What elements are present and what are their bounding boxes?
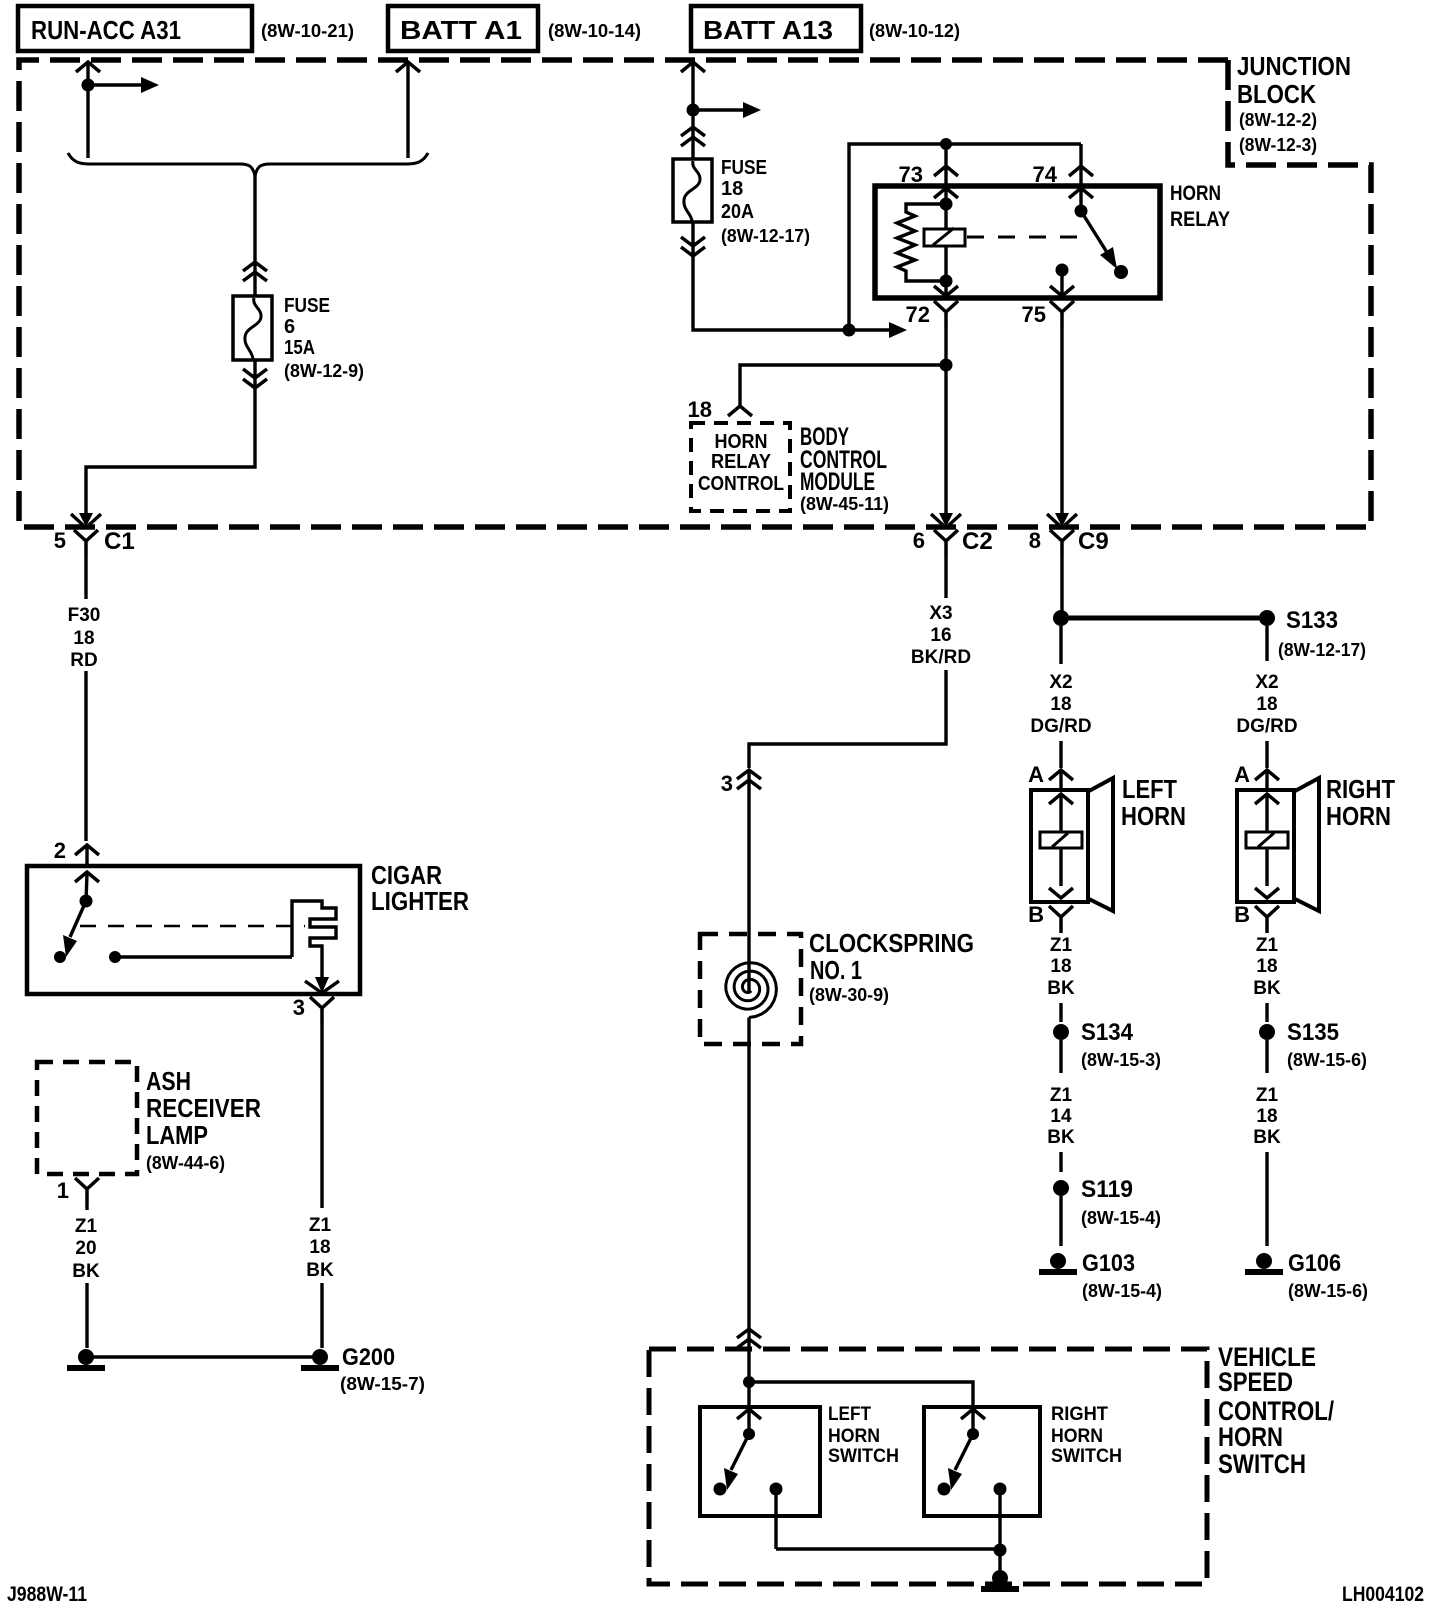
vehicle speed control horn switch dashed box [649, 1349, 1207, 1584]
svg-text:FUSE: FUSE [721, 157, 767, 179]
node on pin 72 wire to BCM [940, 359, 953, 372]
branch arrow right [849, 322, 907, 338]
svg-text:18: 18 [688, 397, 712, 422]
svg-text:A: A [1028, 762, 1044, 787]
relay coil [924, 204, 965, 281]
svg-text:16: 16 [930, 625, 951, 646]
cigar lighter switch pivot node [80, 895, 93, 908]
clockspring no.1 dashed box [700, 934, 801, 1044]
relay switch pivot node [1075, 205, 1088, 218]
BCM horn relay control dashed box [691, 423, 790, 511]
svg-text:BK: BK [306, 1260, 334, 1281]
svg-text:BK: BK [1047, 1127, 1075, 1148]
svg-text:CONTROL: CONTROL [698, 473, 784, 495]
connector C9 pin 8 [1029, 528, 1109, 557]
wire right switch output [998, 1489, 1001, 1550]
svg-text:(8W-10-14): (8W-10-14) [548, 21, 641, 41]
feed box BATT A1 [388, 6, 538, 51]
left horn connector pin B [1028, 902, 1073, 933]
svg-text:RELAY: RELAY [711, 451, 772, 473]
right horn connector pin A [1234, 762, 1279, 790]
left horn label [1121, 774, 1186, 831]
svg-text:RUN-ACC A31: RUN-ACC A31 [31, 15, 181, 45]
body control module label [800, 423, 889, 514]
left switch contact node left [714, 1483, 727, 1496]
cigar lighter box [27, 866, 360, 994]
svg-text:DG/RD: DG/RD [1030, 716, 1091, 737]
svg-text:HORN: HORN [828, 1426, 880, 1447]
fuse 6 label [284, 295, 364, 381]
ground G103 [1039, 1250, 1162, 1301]
svg-text:20: 20 [75, 1238, 96, 1259]
svg-text:75: 75 [1022, 302, 1046, 327]
svg-text:(8W-10-12): (8W-10-12) [869, 21, 960, 41]
svg-text:(8W-10-21): (8W-10-21) [261, 21, 354, 41]
svg-text:G106: G106 [1288, 1250, 1341, 1277]
svg-text:HORN: HORN [1218, 1422, 1283, 1452]
left switch blade [724, 1434, 749, 1490]
connector pin 2 of cigar lighter [54, 838, 99, 866]
svg-text:SWITCH: SWITCH [1051, 1446, 1122, 1467]
feed box RUN-ACC A31 [18, 6, 252, 51]
brace joining feeds [68, 153, 428, 176]
cigar lighter contact node left [54, 951, 66, 963]
node under BATT A13 [687, 104, 700, 117]
node at relay feed tee [843, 324, 856, 337]
svg-text:(8W-30-9): (8W-30-9) [809, 985, 889, 1005]
ash receiver lamp label [146, 1066, 261, 1173]
svg-text:Z1: Z1 [75, 1216, 98, 1237]
svg-text:Z1: Z1 [309, 1215, 332, 1236]
left switch entry [737, 1382, 761, 1434]
svg-text:C1: C1 [104, 528, 135, 555]
svg-text:DG/RD: DG/RD [1236, 716, 1297, 737]
svg-text:(8W-15-3): (8W-15-3) [1081, 1050, 1161, 1070]
right horn connector pin B [1234, 902, 1279, 933]
svg-text:X3: X3 [929, 603, 952, 624]
vehicle speed control label [1218, 1342, 1334, 1479]
svg-text:BK: BK [1253, 978, 1281, 999]
svg-text:(8W-12-17): (8W-12-17) [1278, 640, 1366, 660]
reference (8W-10-14) [548, 21, 641, 41]
junction block label [1237, 51, 1351, 155]
svg-text:BK: BK [1047, 978, 1075, 999]
connector pin 3 [293, 995, 334, 1024]
wire clockspring to horn switches [737, 1044, 761, 1352]
wire F30 18 RD [68, 557, 101, 841]
svg-text:18: 18 [309, 1237, 330, 1258]
svg-text:Z1: Z1 [1050, 1085, 1073, 1106]
wire horn relay control to BCM [740, 365, 946, 406]
svg-text:18: 18 [73, 628, 94, 649]
svg-text:(8W-15-6): (8W-15-6) [1287, 1050, 1367, 1070]
svg-text:S134: S134 [1081, 1019, 1134, 1046]
svg-text:BK: BK [72, 1261, 100, 1282]
clockspring label [809, 928, 974, 1005]
svg-text:S135: S135 [1287, 1019, 1339, 1046]
left horn connector pin A [1028, 762, 1073, 790]
BCM connector pin 18 [688, 397, 752, 422]
svg-text:RECEIVER: RECEIVER [146, 1093, 261, 1123]
ash receiver lamp dashed box [37, 1062, 137, 1174]
cigar lighter switch blade [63, 901, 86, 957]
svg-text:18: 18 [1256, 1106, 1277, 1127]
splice S134 [1053, 1019, 1161, 1073]
cigar lighter switch entry [75, 872, 99, 901]
ground G106 [1245, 1250, 1368, 1301]
svg-text:14: 14 [1050, 1106, 1072, 1127]
svg-text:LAMP: LAMP [146, 1120, 208, 1150]
svg-text:Z1: Z1 [1256, 1085, 1279, 1106]
wire brace to fuse 6 [253, 175, 256, 298]
relay armature dashed link [967, 236, 1085, 239]
node under RUN-ACC A31 [82, 79, 95, 92]
wire Z1 14 BK [1047, 1085, 1075, 1172]
svg-text:G200: G200 [342, 1344, 395, 1371]
right horn label [1326, 774, 1395, 831]
svg-text:BATT A1: BATT A1 [400, 15, 522, 45]
wire to right switch [749, 1382, 973, 1407]
svg-text:JUNCTION: JUNCTION [1237, 51, 1351, 81]
svg-text:(8W-15-4): (8W-15-4) [1082, 1281, 1162, 1301]
svg-text:LEFT: LEFT [828, 1404, 871, 1425]
clockspring connector pin 3 [721, 770, 761, 796]
clockspring coil spiral [726, 934, 777, 1044]
svg-text:RD: RD [70, 650, 97, 671]
svg-text:FUSE: FUSE [284, 295, 330, 317]
wire into switches [747, 1352, 750, 1382]
connector C1 pin 5 [54, 528, 135, 557]
pin 73 [899, 144, 958, 203]
wire Z1 18 BK cigar to G200 [306, 1024, 334, 1348]
svg-text:3: 3 [293, 995, 305, 1020]
svg-text:X2: X2 [1049, 672, 1072, 693]
wire to clockspring [747, 772, 750, 934]
svg-text:ASH: ASH [146, 1066, 191, 1096]
cigar lighter label [371, 860, 469, 916]
mechanical dashed link [80, 925, 305, 927]
svg-text:73: 73 [899, 162, 923, 187]
left horn coil [1040, 794, 1082, 898]
svg-text:(8W-12-2): (8W-12-2) [1239, 110, 1317, 130]
junction block dashed outline [19, 60, 1371, 527]
svg-text:(8W-15-4): (8W-15-4) [1081, 1208, 1161, 1228]
wire Z1 18 BK to G106 [1253, 1085, 1281, 1246]
svg-text:LIGHTER: LIGHTER [371, 886, 469, 916]
wire X2 18 DG/RD left [1030, 626, 1091, 768]
right switch blade [948, 1434, 973, 1490]
right switch contact node right [994, 1483, 1007, 1496]
left horn switch label [828, 1404, 899, 1467]
wire C9 to splice S133 [1060, 557, 1063, 612]
connector C2 pin 6 [913, 528, 993, 557]
svg-text:6: 6 [284, 316, 295, 338]
right switch entry [961, 1407, 985, 1434]
svg-text:HORN: HORN [1051, 1426, 1103, 1447]
splice S135 [1259, 1019, 1367, 1073]
svg-text:MODULE: MODULE [800, 468, 875, 496]
svg-text:SWITCH: SWITCH [828, 1446, 899, 1467]
svg-text:BK/RD: BK/RD [911, 647, 971, 668]
wire X2 18 DG/RD right [1236, 672, 1297, 768]
connector pin 1 of ash lamp [57, 1178, 99, 1205]
svg-text:RELAY: RELAY [1170, 208, 1230, 231]
left switch pivot node [743, 1428, 755, 1440]
node feeding both switches [743, 1376, 755, 1388]
ground G200 [301, 1344, 425, 1394]
svg-text:18: 18 [1050, 694, 1071, 715]
splice S119 [1053, 1176, 1161, 1246]
right horn switch box [924, 1407, 1040, 1516]
branch arrow to other circuits [88, 77, 159, 93]
svg-text:NO. 1: NO. 1 [810, 955, 862, 985]
right switch pivot node [967, 1428, 979, 1440]
sheet number J988W-11 [7, 1583, 87, 1606]
wire left switch output [774, 1489, 777, 1549]
relay switch blade [1081, 211, 1117, 269]
svg-text:RIGHT: RIGHT [1051, 1404, 1108, 1425]
right switch contact node left [938, 1483, 951, 1496]
svg-text:X2: X2 [1255, 672, 1278, 693]
relay switch contact node [1114, 265, 1128, 279]
ground at ash lamp [67, 1349, 105, 1368]
node above pin 73 [940, 138, 952, 150]
svg-text:1: 1 [57, 1178, 69, 1203]
arrow into BATT A1 feed [396, 62, 420, 158]
wire X3 16 BK/RD from C2 [749, 557, 971, 768]
arrow into BATT A13 feed [681, 62, 705, 110]
svg-text:(8W-15-6): (8W-15-6) [1288, 1281, 1368, 1301]
svg-text:A: A [1234, 762, 1250, 787]
fuse 18 label [721, 157, 810, 246]
wire Z1 18 BK left horn [1047, 935, 1075, 1022]
svg-text:F30: F30 [68, 605, 101, 626]
svg-text:3: 3 [721, 771, 733, 796]
svg-text:(8W-44-6): (8W-44-6) [146, 1153, 225, 1173]
svg-text:LEFT: LEFT [1122, 774, 1177, 804]
svg-text:SPEED: SPEED [1218, 1367, 1293, 1397]
splice S133 [1053, 607, 1366, 661]
wire pin 75 to connector C9 [1047, 328, 1077, 527]
svg-text:J988W-11: J988W-11 [7, 1583, 87, 1606]
element exit arrow pin 3 [305, 977, 339, 993]
wire pin 72 to connector C2 [931, 328, 961, 527]
svg-text:HORN: HORN [1121, 801, 1186, 831]
svg-text:5: 5 [54, 528, 66, 553]
horn relay box [875, 186, 1160, 298]
svg-text:(8W-12-9): (8W-12-9) [284, 361, 364, 381]
svg-text:18: 18 [721, 178, 743, 200]
left switch contact node right [770, 1483, 783, 1496]
cigar lighter contact node right [109, 951, 121, 963]
svg-text:6: 6 [913, 528, 925, 553]
pin 72 [906, 281, 958, 328]
sheet number LH004102 [1342, 1583, 1424, 1606]
right horn coil [1246, 794, 1288, 898]
right horn body [1237, 778, 1319, 911]
svg-text:B: B [1234, 902, 1250, 927]
svg-text:C9: C9 [1078, 528, 1109, 555]
wire Z1 18 BK right horn [1253, 935, 1281, 1022]
svg-text:15A: 15A [284, 337, 315, 359]
heating element [292, 901, 336, 978]
relay coil feed node top [940, 198, 953, 211]
wire fuse 6 to connector C1 [71, 360, 255, 527]
arrow into RUN-ACC A31 feed [76, 62, 100, 85]
left horn switch box [700, 1407, 820, 1516]
svg-text:BK: BK [1253, 1127, 1281, 1148]
svg-text:(8W-45-11): (8W-45-11) [800, 494, 889, 514]
wire contact to element [115, 955, 292, 958]
svg-text:18: 18 [1256, 694, 1277, 715]
relay coil node bottom [940, 275, 953, 288]
svg-text:CLOCKSPRING: CLOCKSPRING [809, 928, 974, 958]
fuse 6 15A [233, 262, 272, 388]
svg-text:8: 8 [1029, 528, 1041, 553]
wire joining grounds [86, 1355, 320, 1358]
svg-text:LH004102: LH004102 [1342, 1583, 1424, 1606]
left horn body [1031, 778, 1113, 911]
svg-text:(8W-12-3): (8W-12-3) [1239, 135, 1317, 155]
svg-text:B: B [1028, 902, 1044, 927]
svg-text:18: 18 [1050, 956, 1071, 977]
horn relay label [1170, 182, 1230, 231]
relay resistor [897, 204, 946, 281]
BCM horn relay control label [698, 431, 784, 495]
pin 75 [1022, 264, 1074, 329]
svg-text:72: 72 [906, 302, 930, 327]
svg-text:(8W-12-17): (8W-12-17) [721, 226, 810, 246]
svg-text:SWITCH: SWITCH [1218, 1449, 1306, 1479]
svg-text:74: 74 [1033, 162, 1058, 187]
wire BATT A13 to fuse 18 [691, 110, 694, 160]
svg-text:BLOCK: BLOCK [1237, 79, 1316, 109]
svg-text:BATT A13: BATT A13 [703, 15, 833, 45]
ground at horn switches [981, 1550, 1019, 1589]
svg-text:18: 18 [1256, 956, 1277, 977]
svg-text:Z1: Z1 [1256, 935, 1279, 956]
node at joined outputs [994, 1544, 1007, 1557]
wire up to relay pins 73/74 [849, 144, 1081, 330]
right horn switch label [1051, 1404, 1122, 1467]
svg-text:C2: C2 [962, 528, 993, 555]
svg-text:S133: S133 [1286, 607, 1338, 634]
wire fuse 18 to relay feed [693, 222, 849, 330]
wire RUN-ACC down to brace [86, 85, 89, 158]
pin 74 [1033, 144, 1093, 211]
svg-text:HORN: HORN [1170, 182, 1221, 205]
svg-text:2: 2 [54, 838, 66, 863]
reference (8W-10-12) [869, 21, 960, 41]
fuse 18 20A [673, 127, 712, 256]
svg-text:RIGHT: RIGHT [1326, 774, 1395, 804]
svg-text:20A: 20A [721, 201, 754, 223]
svg-text:(8W-15-7): (8W-15-7) [340, 1374, 425, 1394]
feed box BATT A13 [691, 6, 861, 51]
wire joining switch outputs [776, 1547, 1000, 1550]
branch arrow to other circuits [693, 102, 761, 118]
svg-text:G103: G103 [1082, 1250, 1135, 1277]
wire Z1 20 BK lamp to ground [72, 1205, 100, 1348]
svg-text:HORN: HORN [1326, 801, 1391, 831]
svg-text:S119: S119 [1081, 1176, 1133, 1203]
svg-text:Z1: Z1 [1050, 935, 1073, 956]
reference (8W-10-21) [261, 21, 354, 41]
svg-text:HORN: HORN [715, 431, 768, 453]
